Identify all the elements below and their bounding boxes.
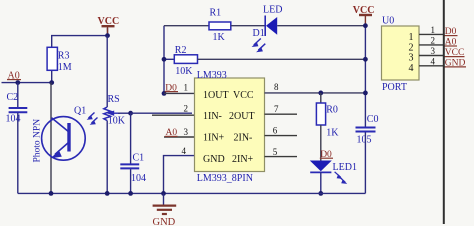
svg-text:Q1: Q1 <box>74 106 86 117</box>
junction pin2/C1 node <box>128 111 133 116</box>
svg-text:3: 3 <box>431 46 436 56</box>
net label GND (port) <box>444 58 466 68</box>
op-amp U1 LM393 box <box>195 70 265 184</box>
junction A0 / R3 <box>49 80 54 85</box>
pin 6 stub <box>265 125 298 135</box>
pin 4 stub U0 <box>419 56 444 66</box>
svg-text:C2: C2 <box>7 92 19 103</box>
svg-text:1IN+: 1IN+ <box>203 132 225 143</box>
resistor R2 <box>174 45 197 77</box>
junction VCC top <box>363 23 368 28</box>
svg-text:2IN+: 2IN+ <box>232 154 254 165</box>
wire R1 to LED D1 <box>231 25 265 27</box>
net label A0 (pin3) + stub <box>164 127 195 138</box>
power symbol VCC (right) <box>353 5 375 26</box>
svg-text:Photo NPN: Photo NPN <box>33 119 43 163</box>
wire R2 row <box>164 58 174 60</box>
connector U0 PORT <box>382 15 420 92</box>
svg-text:104: 104 <box>6 114 21 125</box>
svg-text:7: 7 <box>274 104 279 114</box>
svg-text:3: 3 <box>184 127 189 137</box>
svg-text:1: 1 <box>184 83 189 93</box>
junction rail / GND <box>161 191 166 196</box>
power symbol VCC (left) <box>98 16 120 36</box>
wire VCC-left to R3 top <box>52 28 108 47</box>
transistor Q1 photo NPN <box>33 106 98 163</box>
net label D0 (port) <box>444 27 457 37</box>
wire R3 bottom to A0 node <box>51 70 53 82</box>
svg-text:R2: R2 <box>175 45 187 56</box>
wire collector bus down through Q1 <box>50 83 52 194</box>
wire R0 to LED1 <box>320 125 322 161</box>
wire LM393 pin 4 to gnd rail <box>164 146 195 194</box>
svg-text:C1: C1 <box>133 152 145 163</box>
svg-text:LED1: LED1 <box>333 162 357 173</box>
wire left D0 bus vertical <box>163 26 165 94</box>
wire RS bottom to gnd rail <box>106 121 108 194</box>
wire gnd rail <box>18 192 366 194</box>
junction rail / C1 <box>128 191 133 196</box>
wire LED1 to gnd rail <box>320 172 322 193</box>
net label D0 (pin1) <box>165 83 178 93</box>
svg-text:1: 1 <box>431 25 436 35</box>
junction D0 bus / pin1 <box>162 91 167 96</box>
pin 7 stub <box>265 104 298 114</box>
pin 2 stub U0 <box>419 36 444 46</box>
LED D0 / LED1 <box>310 161 357 184</box>
svg-text:D1: D1 <box>253 28 265 39</box>
svg-text:6: 6 <box>273 125 278 135</box>
svg-text:104: 104 <box>131 173 146 184</box>
svg-text:U0: U0 <box>382 15 394 26</box>
wire LM393 pin 8 to VCC bus <box>265 82 366 93</box>
wire right bus vertical <box>443 0 445 224</box>
resistor R0 <box>316 103 339 138</box>
svg-text:R0: R0 <box>326 104 338 115</box>
svg-text:PORT: PORT <box>382 82 407 93</box>
junction VCC-left node <box>105 33 110 38</box>
svg-text:4: 4 <box>409 63 414 74</box>
junction A0 / C2 <box>15 80 20 85</box>
svg-text:1K: 1K <box>213 32 226 43</box>
svg-text:4: 4 <box>431 56 436 66</box>
wire R0 top <box>320 93 322 103</box>
svg-text:8: 8 <box>274 82 279 92</box>
wire pin2 node to LM393 pin 2 <box>131 112 192 114</box>
pin 3 stub U0 <box>419 46 444 56</box>
svg-text:2IN-: 2IN- <box>234 132 253 143</box>
net label A0 (left) <box>7 71 21 82</box>
svg-text:C0: C0 <box>367 114 379 125</box>
wire VCC-right bus vertical <box>364 26 366 127</box>
svg-text:GND: GND <box>203 154 225 165</box>
svg-text:105: 105 <box>357 135 372 146</box>
wire C0 bottom to gnd rail <box>364 132 366 193</box>
svg-text:5: 5 <box>273 147 278 157</box>
svg-text:10K: 10K <box>175 66 193 77</box>
svg-text:LM393: LM393 <box>197 70 227 81</box>
junction VCC / pin8 <box>363 91 368 96</box>
svg-text:R1: R1 <box>210 8 222 19</box>
svg-text:10K: 10K <box>108 116 126 127</box>
svg-text:1OUT: 1OUT <box>203 90 229 101</box>
svg-text:GND: GND <box>153 217 176 226</box>
capacitor C0 <box>356 114 379 146</box>
net label A0 (port) <box>444 37 457 47</box>
svg-text:LED: LED <box>263 5 282 16</box>
junction rail / Q1 <box>49 191 54 196</box>
net label VCC (port) <box>444 48 464 58</box>
junction pin8 / R0 <box>318 91 323 96</box>
wire wiper to pin2 node <box>118 112 131 114</box>
capacitor C2 <box>6 83 28 194</box>
svg-text:RS: RS <box>108 94 120 105</box>
svg-text:1K: 1K <box>326 127 339 138</box>
svg-text:4: 4 <box>182 146 187 156</box>
pin 5 stub <box>265 147 298 157</box>
svg-text:2OUT: 2OUT <box>229 111 255 122</box>
net label D0 (LED1) <box>320 150 333 160</box>
junction rail / RS <box>105 191 110 196</box>
svg-text:2: 2 <box>184 103 189 113</box>
wire VCC node down to RS <box>106 36 108 107</box>
wire A0 horizontal left <box>2 82 52 84</box>
junction VCC / R2 <box>363 57 368 62</box>
LED D1 <box>252 5 283 53</box>
wire top rail to R1 <box>164 25 209 27</box>
ground <box>153 193 177 228</box>
junction D0 bus / R2 <box>162 57 167 62</box>
wire D0 node to LM393 pin 1 <box>164 92 195 94</box>
resistor RS 10K variable <box>104 94 126 127</box>
svg-text:R3: R3 <box>58 51 70 62</box>
capacitor C1 <box>120 113 146 193</box>
resistor R3 <box>47 47 72 73</box>
svg-text:1M: 1M <box>58 62 72 73</box>
svg-text:LM393_8PIN: LM393_8PIN <box>197 173 253 184</box>
svg-text:VCC: VCC <box>233 90 254 101</box>
wire LED D1 to VCC-right <box>277 25 365 27</box>
junction LED1 / rail <box>318 191 323 196</box>
resistor R1 <box>209 8 231 43</box>
svg-text:2: 2 <box>431 36 436 46</box>
svg-text:1IN-: 1IN- <box>203 111 222 122</box>
pin 1 stub U0 <box>419 25 444 35</box>
wire R2 to VCC-right bus <box>198 58 366 60</box>
